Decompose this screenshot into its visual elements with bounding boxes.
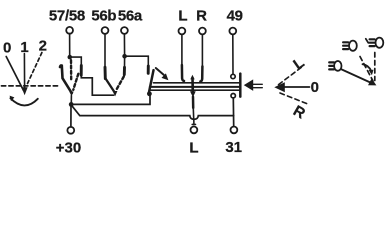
turn arm dash link xyxy=(192,109,194,119)
rotary pointer ray xyxy=(23,54,25,89)
flasher contact upper circle xyxy=(231,74,235,78)
terminal L top xyxy=(179,28,186,35)
lever ray 0 xyxy=(284,86,310,88)
push rod line lower xyxy=(253,87,262,89)
terminal L bottom xyxy=(191,126,198,133)
wire L top down xyxy=(181,34,183,66)
contact stub right (pos2) xyxy=(80,66,83,76)
svg-text:L: L xyxy=(189,139,198,156)
light switch arm (position 0) xyxy=(60,65,72,93)
svg-text:2: 2 xyxy=(39,38,47,55)
svg-text:0: 0 xyxy=(311,79,319,96)
terminal 56b xyxy=(102,27,109,34)
turn arm lower arrowhead xyxy=(190,91,196,97)
turn arm tip arrow xyxy=(190,75,194,80)
flasher arm xyxy=(149,70,154,93)
terminal 56a xyxy=(121,27,128,34)
bus B lower xyxy=(72,106,234,120)
terminal 49 xyxy=(229,28,236,35)
headlamp symbol left bars xyxy=(329,62,334,69)
svg-text:56b: 56b xyxy=(91,7,116,24)
wire R top down xyxy=(201,34,203,67)
wire node to 56a stub xyxy=(124,56,126,68)
wire to 31 xyxy=(232,98,234,127)
dashed arm position 2 xyxy=(73,74,78,90)
rotary ray to 0 xyxy=(6,57,23,91)
headlamp symbol right lens xyxy=(376,38,384,48)
dashed arm position 1 xyxy=(70,60,73,79)
svg-text:57/58: 57/58 xyxy=(49,7,85,24)
wire node to stub elbow xyxy=(70,57,82,66)
common rail xyxy=(149,89,239,91)
turn signal arm xyxy=(191,78,194,92)
svg-text:+30: +30 xyxy=(56,139,81,156)
dashed dip arm position xyxy=(117,77,124,90)
terminal R top xyxy=(199,28,206,35)
headlamp symbol mid lens xyxy=(349,41,357,51)
beam dashed diagonal xyxy=(360,57,373,82)
rotary pointer arrowhead xyxy=(22,87,28,95)
svg-text:56a: 56a xyxy=(118,7,143,24)
beam apex arrowhead xyxy=(368,78,376,85)
dip switch arm solid xyxy=(106,79,115,93)
flasher actuation arrow xyxy=(156,68,164,75)
wire 56a to flasher stub xyxy=(125,56,149,66)
terminal 57/58 xyxy=(66,27,73,34)
node +30 xyxy=(69,102,74,107)
flasher contact lower circle xyxy=(231,94,235,98)
svg-text:L: L xyxy=(290,54,307,73)
rotation arc xyxy=(10,98,37,105)
push arrow triangle xyxy=(244,79,253,91)
headlamp symbol mid bars xyxy=(343,42,348,49)
lever apex arrow xyxy=(274,82,285,92)
headlamp symbol right bars xyxy=(370,39,375,46)
flasher pivot node xyxy=(147,91,152,96)
lever dashed ray R xyxy=(280,93,309,104)
wire 56b down xyxy=(104,34,106,68)
bus A +30 xyxy=(71,94,150,104)
lever dashed ray L xyxy=(279,67,303,85)
rotary dashed ray to 2 xyxy=(28,53,42,84)
shaft upper line xyxy=(154,82,240,84)
wire to L bottom xyxy=(193,119,195,124)
wire 57/58 to node xyxy=(69,34,71,58)
svg-text:R: R xyxy=(290,102,308,122)
beam curve arrowhead xyxy=(369,70,374,75)
terminal 31 xyxy=(231,126,238,133)
headlamp symbol right tick xyxy=(366,39,369,43)
svg-text:0: 0 xyxy=(3,39,11,56)
terminal +30 xyxy=(67,127,74,134)
wire stub to dip-switch common xyxy=(81,75,113,95)
shaft end bar xyxy=(239,74,242,97)
svg-text:49: 49 xyxy=(227,7,243,24)
contact flare L bottom xyxy=(192,123,195,125)
flasher arrow head xyxy=(162,73,169,80)
contact stub flasher xyxy=(147,66,150,73)
svg-text:L: L xyxy=(178,7,187,24)
headlamp symbol left lens xyxy=(334,61,341,71)
contact stub 56b xyxy=(104,67,107,78)
shaft lower line xyxy=(150,86,239,88)
node below 57/58 xyxy=(68,55,73,60)
push rod line upper xyxy=(253,83,262,85)
beam curve arrow xyxy=(363,64,372,71)
svg-text:31: 31 xyxy=(225,139,242,156)
svg-text:R: R xyxy=(196,7,207,24)
wire 56a down to node xyxy=(123,34,125,56)
node 56a xyxy=(122,54,127,59)
contact stub 56a xyxy=(123,67,126,74)
beam solid ray xyxy=(342,70,372,84)
arm tip arrow light switch xyxy=(69,92,73,97)
turn arm lower stem xyxy=(192,97,195,108)
mechanical dashed link xyxy=(2,85,59,87)
beam dashed vertical xyxy=(374,53,376,81)
rotation arc arrowhead xyxy=(10,96,15,102)
wire +30 stem xyxy=(70,104,72,127)
contact stub L xyxy=(182,65,184,81)
wire arm to +30 node xyxy=(70,96,72,105)
contact stub R xyxy=(200,66,202,81)
dip arm tip arrow xyxy=(113,91,118,96)
wire 49 down xyxy=(232,34,234,74)
